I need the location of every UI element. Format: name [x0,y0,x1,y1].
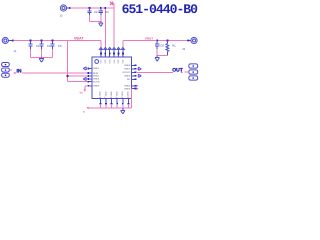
port IN [13,68,22,74]
svg-text:IN: IN [17,68,22,74]
capacitor C2 [39,40,51,58]
ground right [155,56,160,62]
gnd flag pin GND1 [83,67,86,70]
U1 right pin NC1 [124,68,138,71]
svg-text:7: 7 [113,54,114,57]
svg-text:4: 4 [100,54,101,57]
capacitor C1 [28,40,40,58]
capacitor C5 [99,7,110,21]
svg-text:GND2: GND2 [93,75,100,78]
svg-text:GND1: GND1 [93,67,100,70]
U1 bottom pins [100,99,130,108]
svg-text:GND5: GND5 [124,87,131,90]
net flag gnd rail [83,107,89,114]
IC U1 [92,57,132,99]
svg-text:J1: J1 [14,49,17,53]
gnd flag pin GND7 [138,74,141,77]
U1 top pin numbers [100,54,123,57]
gnd flag pin GND8 [138,67,141,70]
svg-text:GND8: GND8 [124,64,131,67]
net flag X [110,2,113,6]
wire TP5 stub [184,71,189,73]
wire gnd rail right [157,55,167,57]
svg-text:GND: GND [110,91,113,96]
title 651-0440-B0 [122,2,199,17]
svg-text:GND: GND [104,91,107,96]
svg-text:9: 9 [122,54,123,57]
svg-text:VCON: VCON [93,81,100,84]
net label VOUT [145,37,154,41]
U1 inner top labels [100,59,125,64]
wire VOUT rail [123,41,188,48]
wire gnd rail mid [31,56,53,58]
connector J2 [60,5,71,18]
wire IN [22,72,89,74]
svg-text:GND4: GND4 [93,85,100,88]
U1 inner bottom labels [99,91,130,96]
node drop2 junction [104,7,106,9]
testpoint TP2 [2,68,10,72]
wire gnd rail bottom [89,89,132,108]
U1 left pin GND3 [87,85,99,88]
U1 right pin RFOUT [123,71,137,74]
U1 right pin GND6 [124,85,138,88]
testpoint TP6 [189,76,198,80]
svg-text:C8: C8 [160,44,164,48]
svg-text:C4: C4 [94,10,98,14]
wire gnd rail top [90,21,101,23]
svg-text:NC: NC [127,78,131,81]
capacitor C3 [50,40,62,58]
svg-text:GND3: GND3 [93,78,100,81]
svg-text:651-0440-B0: 651-0440-B0 [122,2,199,17]
svg-text:VOUT: VOUT [145,37,154,41]
testpoint TP3 [2,73,10,77]
capacitor C8 [155,40,164,56]
U1 top pins [99,47,124,57]
ground bottom [121,108,126,114]
svg-text:5: 5 [104,54,105,57]
connector J1 [2,37,17,52]
U1 right pin GND8 [124,64,136,67]
U1 left pin GND2 [87,78,99,81]
wire TP2 stub [9,69,12,71]
U1 left pin GND1 [87,67,99,70]
U1 left pin VCON [87,81,99,84]
ground top [99,22,104,27]
svg-text:GND6: GND6 [124,75,131,78]
svg-text:GND: GND [99,91,102,96]
svg-text:GND: GND [121,91,124,96]
net label VBAT [74,37,84,41]
svg-text:6: 6 [109,54,110,57]
svg-text:GND6: GND6 [124,85,131,88]
svg-text:J3: J3 [182,47,185,51]
ground mid [39,57,44,62]
U1 right pin NC2 [127,78,136,81]
svg-text:VBAT: VBAT [74,37,84,41]
svg-text:J2: J2 [60,14,63,18]
svg-text:C3: C3 [58,44,62,48]
testpoint TP5 [189,70,198,74]
wire row3 from VBAT drop [67,75,89,77]
U1 left pin RFIN [87,72,98,75]
wire VBAT rail [14,41,101,48]
testpoint TP4 [189,64,198,68]
wire VOUT top [70,4,114,48]
svg-text:RFOUT: RFOUT [123,71,131,74]
svg-text:8: 8 [118,54,119,57]
connector J3 [182,37,197,51]
wire VCON stub [80,86,89,95]
svg-text:G: G [83,111,85,114]
wire VBAT drop to pin row4 [68,41,89,82]
testpoint TP1 [2,63,10,67]
U1 right pin GND7 [124,75,136,78]
resistor R1 [166,40,176,56]
port OUT [172,68,183,74]
capacitor C4 [87,7,98,21]
svg-text:VC: VC [80,92,84,95]
U1 bottom pin numbers [99,96,129,99]
svg-text:C5: C5 [105,10,109,14]
gnd flag pin GND2 [83,77,86,80]
svg-text:R1: R1 [172,43,176,47]
svg-text:GND: GND [116,91,119,96]
U1 right pin GND5 [124,87,138,90]
svg-text:RFIN: RFIN [93,72,99,75]
svg-text:GND7: GND7 [124,68,131,71]
svg-text:GND: GND [127,91,130,96]
U1 left pin GND2 [87,75,99,78]
wire RFOUT [136,71,173,73]
